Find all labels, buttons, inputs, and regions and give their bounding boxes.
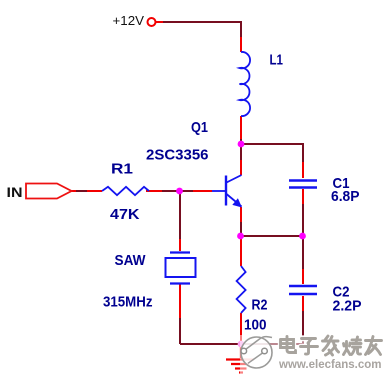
svg-text:6.8P: 6.8P (331, 188, 360, 205)
wire junction A cross (241, 138, 303, 162)
wire SAW bottom to rail (179, 318, 181, 344)
svg-text:2SC3356: 2SC3356 (146, 147, 209, 164)
svg-text:+12V: +12V (113, 14, 145, 28)
svg-text:Q1: Q1 (191, 119, 208, 136)
node E junction (238, 341, 245, 348)
resistor R1 (102, 187, 149, 195)
wire R1 right to node D (162, 190, 180, 192)
wire C2 bottom to ground rail (302, 311, 304, 344)
resistor R2 (237, 266, 246, 313)
pin L1 bottom (240, 116, 242, 139)
svg-text:IN: IN (7, 184, 23, 200)
svg-text:100: 100 (244, 317, 267, 334)
wire emitter to node C (240, 222, 242, 233)
pin R1 left (87, 190, 102, 192)
watermark wash (240, 335, 384, 375)
SAW resonator (166, 253, 196, 284)
capacitor C1 (289, 181, 317, 188)
power stub +12V (156, 21, 163, 23)
pin IN port stub (71, 190, 76, 192)
svg-text:SAW: SAW (115, 252, 147, 269)
port IN (26, 184, 72, 199)
watermark CJK text 电子发烧友 (281, 336, 382, 355)
capacitor C2 (289, 286, 317, 294)
pin Q1 emitter (240, 207, 242, 222)
watermark logo (241, 337, 272, 368)
wire R1 left (76, 190, 87, 192)
pin Q1 collector (240, 160, 242, 175)
svg-text:R1: R1 (111, 161, 133, 178)
inductor L1 (240, 52, 251, 116)
wire SAW top branch (179, 191, 193, 239)
power terminal +12V circle (148, 18, 156, 26)
svg-text:47K: 47K (110, 206, 140, 223)
node D junction (176, 188, 183, 195)
wire C1 bottom to node B (302, 204, 304, 236)
wire bottom ground rail (180, 343, 303, 345)
svg-text:2.2P: 2.2P (333, 298, 362, 315)
pin R2 top (240, 238, 242, 266)
node A junction (238, 141, 245, 148)
svg-text:L1: L1 (270, 52, 284, 69)
pin R2 bottom (240, 313, 242, 342)
ground (226, 344, 254, 373)
pin C1 top (302, 162, 304, 178)
pin C2 bottom (302, 296, 304, 311)
pin C1 bottom (302, 189, 304, 204)
pin SAW top (179, 239, 181, 251)
wire emitter rail node C to node B (241, 235, 303, 237)
svg-text:www.elecfans.com: www.elecfans.com (278, 359, 381, 371)
wire node B down to C2 (302, 236, 304, 269)
node B junction (299, 233, 306, 240)
pin L1 top (240, 37, 242, 52)
pin R1 right (146, 190, 162, 192)
wire top rail from +12V to L1 (163, 22, 241, 38)
node C junction (237, 233, 244, 240)
svg-text:R2: R2 (252, 297, 268, 314)
transistor Q1 (212, 175, 242, 208)
pin SAW bottom (179, 284, 181, 318)
pin Q1 base (193, 190, 212, 192)
pin C2 top (302, 269, 304, 284)
watermark (240, 335, 384, 375)
svg-text:315MHz: 315MHz (103, 294, 153, 311)
